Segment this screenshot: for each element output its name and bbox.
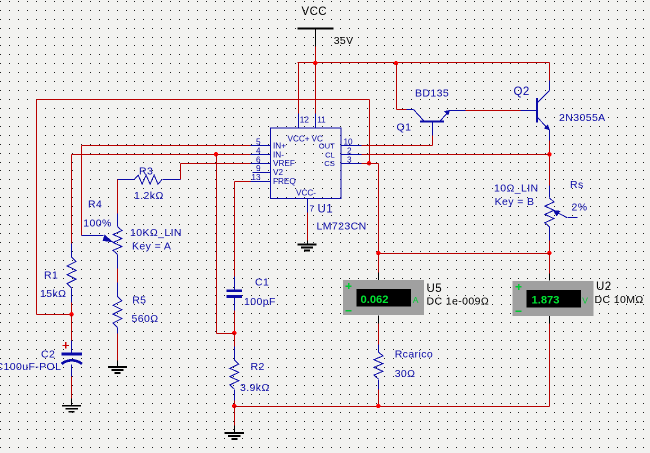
ground under R5 xyxy=(108,361,127,374)
svg-text:CL: CL xyxy=(325,150,335,159)
wire rail to pin 12 xyxy=(298,63,300,114)
junction rail/Q1 collector branch xyxy=(394,61,398,65)
wire R1 to node xyxy=(71,303,73,315)
ground under U1 pin 7 xyxy=(297,241,316,251)
pin 11 stub of U1 xyxy=(316,114,327,128)
wire node to R2 xyxy=(234,334,236,347)
op-amp/regulator U1 box xyxy=(270,128,341,199)
wire Rs to meter node xyxy=(549,241,551,254)
svg-text:VREF: VREF xyxy=(273,159,295,168)
resistor R5 xyxy=(113,283,122,334)
U1 pin stubs xyxy=(251,146,362,213)
svg-text:DC 1e-009Ω: DC 1e-009Ω xyxy=(427,296,490,308)
wire node to U5 ammeter xyxy=(378,254,380,273)
pin 12 stub of U1 xyxy=(299,114,310,128)
label R1 value xyxy=(40,288,66,300)
U1 internal labels xyxy=(273,134,335,197)
svg-text:BD135: BD135 xyxy=(415,88,449,100)
wire top rail xyxy=(298,62,550,64)
wire VCC to rail xyxy=(315,47,317,64)
junction Rs bottom node xyxy=(547,251,551,255)
junction C1/R2/branch node xyxy=(232,331,236,335)
label LM723CN xyxy=(317,221,367,233)
potentiometer R4 xyxy=(82,214,123,269)
svg-text:100%: 100% xyxy=(83,217,111,229)
label C2 value xyxy=(0,361,61,373)
svg-text:Rcarico: Rcarico xyxy=(395,349,433,361)
wire rail to Q2 collector xyxy=(549,63,551,81)
svg-text:DC 10MΩ: DC 10MΩ xyxy=(595,294,644,306)
junction at VCC/rail xyxy=(313,61,317,65)
junction R1/C2/loop node xyxy=(69,312,73,316)
junction CS pin node xyxy=(367,161,371,165)
svg-text:V2: V2 xyxy=(273,168,283,177)
label C1 xyxy=(255,277,269,289)
label R4 percent xyxy=(83,217,111,229)
label R2 value xyxy=(240,382,270,394)
svg-text:12: 12 xyxy=(300,116,310,125)
label R4 xyxy=(88,199,102,211)
svg-text:IN-: IN- xyxy=(273,150,284,159)
junction IN- / C1 branch xyxy=(214,152,218,156)
transistor Q1 BD135 xyxy=(407,110,466,136)
wire meter node horizontal xyxy=(379,253,550,255)
label R3 xyxy=(139,166,153,178)
wire C1 to node xyxy=(234,311,236,334)
svg-text:VCC: VCC xyxy=(302,6,327,18)
ground under R2 node xyxy=(225,426,244,440)
svg-text:2N3055A: 2N3055A xyxy=(559,112,606,124)
svg-text:R5: R5 xyxy=(132,295,146,307)
svg-text:U2: U2 xyxy=(596,281,612,293)
wire CS pin to corner xyxy=(362,163,379,165)
svg-text:13: 13 xyxy=(251,173,261,182)
wire C2 to ground xyxy=(71,377,73,399)
transistor Q2 2N3055A xyxy=(521,81,550,141)
power symbol VCC xyxy=(297,6,353,47)
label Rs percent xyxy=(572,202,588,214)
resistor R3 xyxy=(118,175,181,184)
wire node to C1-left branch xyxy=(217,333,235,335)
wire Q2 emitter down xyxy=(549,141,551,186)
svg-text:VCC-: VCC- xyxy=(296,188,316,197)
label R3 value xyxy=(134,190,164,202)
svg-text:C100uF-POL: C100uF-POL xyxy=(0,361,61,373)
wire FREQ net xyxy=(235,182,251,277)
svg-text:2%: 2% xyxy=(572,202,588,214)
wire Rs node to U2 top xyxy=(549,254,551,274)
svg-text:Key = A: Key = A xyxy=(132,241,171,253)
svg-text:R3: R3 xyxy=(139,166,153,178)
junction Q2 emitter / CL node xyxy=(547,152,551,156)
label Q2 xyxy=(514,86,530,98)
ammeter U5 xyxy=(343,273,424,324)
svg-text:A: A xyxy=(413,295,419,305)
wire R4 to R5 xyxy=(117,269,119,283)
wire IN- net xyxy=(72,155,251,244)
label Q1 xyxy=(397,122,412,134)
wire R3 to R4 top xyxy=(117,180,119,214)
svg-text:Rs: Rs xyxy=(570,179,584,191)
svg-text:35V: 35V xyxy=(334,35,354,47)
label R5 value xyxy=(132,313,159,325)
svg-text:100pF: 100pF xyxy=(244,296,276,308)
junction Rcarico bottom xyxy=(376,404,380,408)
U1 pin number labels xyxy=(251,138,353,214)
label U5 setting xyxy=(427,296,490,308)
svg-text:6: 6 xyxy=(256,155,261,164)
wire CS vertical xyxy=(369,100,371,164)
label Rs xyxy=(570,179,584,191)
wire Q1 base down xyxy=(432,136,434,146)
svg-text:V: V xyxy=(582,295,588,305)
svg-text:15kΩ: 15kΩ xyxy=(40,288,66,300)
wire node to C2 xyxy=(71,315,73,341)
svg-text:Key = B: Key = B xyxy=(495,196,535,208)
potentiometer Rs xyxy=(545,186,578,241)
svg-text:CS: CS xyxy=(324,159,335,168)
label 2N3055A xyxy=(559,112,606,124)
svg-text:R4: R4 xyxy=(88,199,102,211)
svg-text:1.2kΩ: 1.2kΩ xyxy=(134,190,164,202)
svg-text:C2: C2 xyxy=(41,349,55,361)
label R5 xyxy=(132,295,146,307)
svg-text:560Ω: 560Ω xyxy=(132,313,159,325)
wire CS loop left xyxy=(36,100,38,315)
label U5 xyxy=(427,283,443,295)
junction ammeter branch node xyxy=(376,251,380,255)
svg-text:3: 3 xyxy=(347,155,352,164)
label Rs key xyxy=(495,196,535,208)
svg-text:LM723CN: LM723CN xyxy=(317,221,367,233)
svg-text:FREQ: FREQ xyxy=(273,177,296,186)
wire VREF net xyxy=(181,164,251,180)
wire U1 pin 7 to ground xyxy=(307,213,309,241)
wire Rcarico to bottom rail xyxy=(378,390,380,407)
wire C1 left branch down xyxy=(216,155,218,334)
resistor R2 xyxy=(230,347,239,401)
label R4 value xyxy=(130,227,182,239)
label U2 setting xyxy=(595,294,644,306)
svg-text:R1: R1 xyxy=(44,270,58,282)
svg-text:Q2: Q2 xyxy=(514,86,530,98)
label R4 key xyxy=(132,241,171,253)
svg-text:IN+: IN+ xyxy=(273,141,286,150)
label BD135 xyxy=(415,88,449,100)
wire rail to pin 11 xyxy=(315,64,317,114)
wire IN+ net xyxy=(82,146,251,236)
svg-text:11: 11 xyxy=(317,116,326,125)
label R2 xyxy=(251,361,265,373)
svg-text:VCC+: VCC+ xyxy=(288,134,310,143)
svg-text:C1: C1 xyxy=(255,277,269,289)
svg-text:1.873: 1.873 xyxy=(532,295,560,307)
capacitor C2 polarized xyxy=(62,341,83,377)
svg-text:R2: R2 xyxy=(251,361,265,373)
wire bottom rail up to U2 xyxy=(549,324,551,407)
wire bottom rail xyxy=(235,406,550,408)
label U2 xyxy=(596,281,612,293)
wire node to ground xyxy=(234,407,236,426)
wire R5 to ground xyxy=(117,334,119,361)
svg-text:OUT: OUT xyxy=(319,141,335,150)
capacitor C1 xyxy=(226,277,242,311)
wire CS loop top xyxy=(37,99,370,101)
resistor R1 xyxy=(67,244,76,303)
svg-text:0.062: 0.062 xyxy=(361,294,389,306)
resistor Rcarico xyxy=(374,345,383,390)
wire CS corner down to ammeter node xyxy=(378,164,380,254)
label Rs value xyxy=(494,183,539,195)
label C1 value xyxy=(244,296,276,308)
wire OUT to Q1 base xyxy=(362,145,433,147)
svg-text:Q1: Q1 xyxy=(397,122,412,134)
svg-text:9: 9 xyxy=(256,164,261,173)
label Rcarico xyxy=(395,349,433,361)
wire rail to Q1 collector xyxy=(397,64,407,110)
svg-text:30Ω: 30Ω xyxy=(395,368,416,380)
label R1 xyxy=(44,270,58,282)
svg-text:3.9kΩ: 3.9kΩ xyxy=(240,382,270,394)
ground under C2 xyxy=(62,399,81,412)
label Rcarico value xyxy=(395,368,416,380)
wire U5 to Rcarico xyxy=(378,324,380,345)
wire CL to Q2 emitter node xyxy=(362,154,550,156)
voltmeter U2 xyxy=(513,274,594,324)
svg-text:U5: U5 xyxy=(427,283,443,295)
junction R2/ground/bottom-rail node xyxy=(232,404,236,408)
svg-text:U1: U1 xyxy=(318,204,334,216)
svg-text:10Ω_LIN: 10Ω_LIN xyxy=(494,183,539,195)
label U1 xyxy=(318,204,334,216)
svg-text:7: 7 xyxy=(310,205,315,214)
wire CS loop bottom to R1/C2 node xyxy=(37,314,72,316)
label C2 xyxy=(41,349,55,361)
wire Q1 emitter to Q2 base xyxy=(466,110,521,112)
wire R2 to bottom node xyxy=(234,401,236,407)
svg-text:10KΩ_LIN: 10KΩ_LIN xyxy=(130,227,182,239)
